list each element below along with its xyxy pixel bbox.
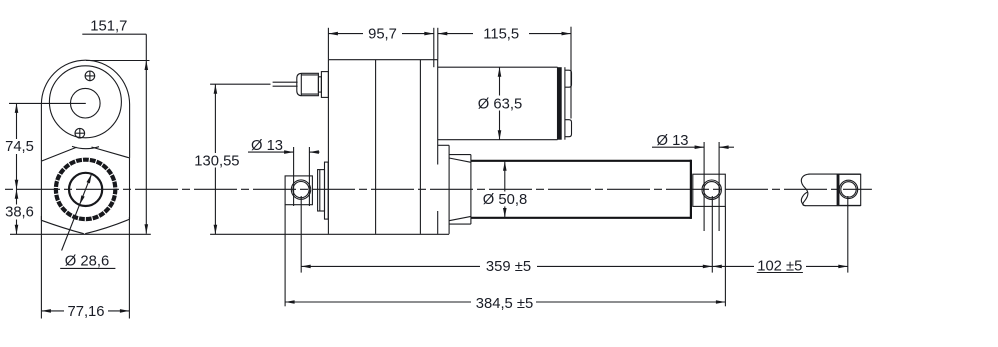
spacer washer small — [318, 170, 325, 211]
detached rod end: rod with break — [801, 174, 860, 206]
dimension 359 +/-5 — [301, 196, 712, 275]
outer tube — [471, 160, 691, 219]
motor end cap — [558, 67, 565, 140]
dimension diameter 50,8 — [481, 161, 529, 217]
detached rod end: joint band — [837, 174, 839, 205]
dimension 115,5 — [438, 26, 571, 118]
dimension diameter 13 rear — [248, 138, 320, 206]
dimension 38,6 — [3, 189, 151, 234]
motor terminal top — [565, 70, 572, 87]
detached rod end: block — [839, 174, 861, 205]
dimension diameter 13 front — [652, 133, 734, 231]
end view: trunnion bore circle — [69, 173, 102, 206]
svg-text:95,7: 95,7 — [368, 26, 397, 42]
front clevis block — [693, 174, 726, 206]
wire — [273, 82, 298, 86]
dimension 77,16 — [41, 216, 129, 320]
dimension 384,5 +/-5 — [285, 205, 725, 312]
svg-text:359 ±5: 359 ±5 — [486, 259, 531, 275]
front clevis hole — [702, 180, 721, 199]
svg-text:115,5: 115,5 — [483, 26, 519, 42]
motor terminal bottom — [565, 120, 572, 137]
screw bottom — [75, 128, 85, 138]
svg-text:130,55: 130,55 — [194, 153, 239, 169]
dimension 74,5 — [3, 103, 86, 234]
dimension 102 +/-5 — [712, 196, 848, 275]
svg-text:77,16: 77,16 — [67, 304, 104, 320]
motor body — [438, 67, 558, 140]
housing divider web — [375, 60, 377, 234]
leader line diameter 28,6 — [62, 173, 94, 250]
svg-text:151,7: 151,7 — [90, 19, 127, 35]
end view: top hole — [71, 88, 101, 118]
main centerline axis — [2, 188, 872, 190]
svg-text:384,5 ±5: 384,5 ±5 — [476, 296, 534, 312]
svg-text:Ø 13: Ø 13 — [251, 138, 283, 154]
dimension 95,7 — [328, 26, 433, 67]
rear clevis block — [285, 176, 312, 205]
screw top — [85, 71, 95, 81]
rear clevis hole — [291, 180, 310, 199]
detached rod end: hole — [839, 180, 857, 198]
svg-text:38,6: 38,6 — [5, 205, 34, 221]
front step and collar — [438, 145, 471, 234]
svg-text:Ø 50,8: Ø 50,8 — [483, 192, 527, 208]
end view: trunnion outer ring — [56, 160, 115, 219]
svg-text:Ø 28,6: Ø 28,6 — [65, 253, 109, 269]
end view: body hex flats — [41, 147, 129, 234]
gearbox housing — [328, 60, 437, 234]
svg-text:Ø 13: Ø 13 — [656, 133, 688, 149]
end view: bell housing inner circle — [49, 66, 121, 138]
dimension 130,55 — [193, 84, 449, 234]
dimension 151,7 — [82, 19, 149, 234]
svg-text:Ø 63,5: Ø 63,5 — [478, 96, 522, 112]
spacer washer large — [325, 162, 329, 219]
dimension diameter 63,5 — [476, 67, 524, 140]
end view: bell housing outer outline — [41, 60, 129, 161]
cable gland — [297, 72, 329, 98]
svg-text:74,5: 74,5 — [5, 139, 34, 155]
label diameter 28,6 — [60, 253, 115, 269]
